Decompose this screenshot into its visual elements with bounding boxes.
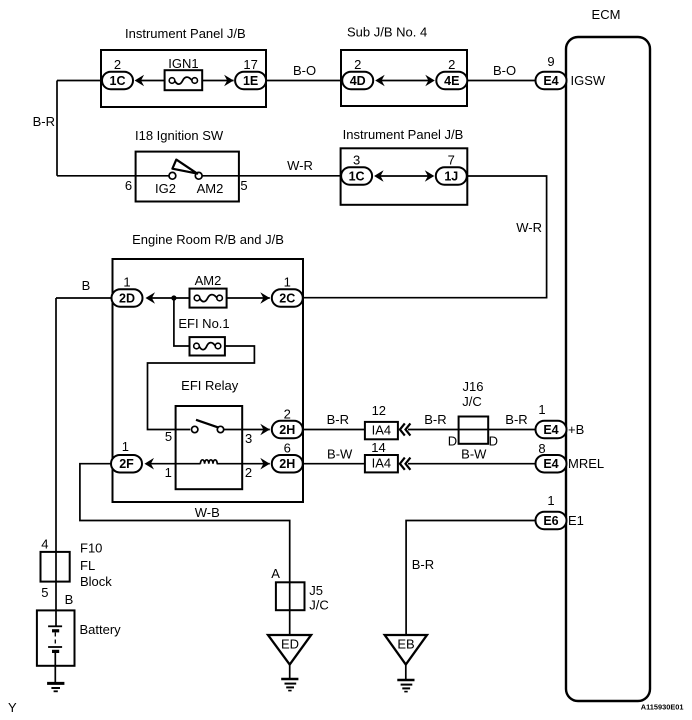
wire B-R vertical — [56, 81, 58, 176]
svg-text:W-B: W-B — [195, 505, 220, 520]
wire 1J right then down then to 2C (W-R) — [303, 176, 546, 298]
svg-text:7: 7 — [448, 153, 455, 168]
arrow into 2H pin 6 — [260, 458, 270, 470]
svg-text:5: 5 — [240, 178, 247, 193]
svg-text:A115930E01: A115930E01 — [641, 703, 684, 712]
svg-text:1C: 1C — [110, 74, 126, 88]
wire coil to arrow — [217, 463, 270, 465]
svg-text:EB: EB — [397, 637, 414, 652]
switch lever — [172, 160, 197, 174]
svg-text:1C: 1C — [349, 170, 365, 184]
EFI Relay box — [176, 378, 243, 489]
svg-text:4D: 4D — [350, 74, 366, 88]
svg-text:B-O: B-O — [293, 63, 316, 78]
Engine Room R/B and J/B box — [113, 232, 304, 502]
svg-text:2F: 2F — [119, 457, 134, 471]
svg-text:1: 1 — [284, 275, 291, 290]
wire 1C to 1J — [380, 175, 430, 177]
wire chevron to E4 (B-W) — [408, 463, 536, 465]
ground ED — [281, 679, 298, 691]
arrow into 4D — [375, 75, 385, 87]
wire arrow to relay coil — [150, 463, 201, 465]
svg-text:B-W: B-W — [327, 447, 353, 462]
svg-text:D: D — [448, 434, 457, 449]
arrow into 1C — [135, 75, 145, 87]
relay coil — [200, 460, 217, 464]
arrow into 1J — [425, 170, 435, 182]
wire junction down to EFI No.1 fuse — [174, 298, 190, 346]
junction dot — [171, 295, 176, 300]
svg-text:1: 1 — [122, 439, 129, 454]
connector 1C pin 2 — [102, 57, 133, 89]
svg-text:3: 3 — [353, 153, 360, 168]
I18 Ignition SW box — [135, 128, 239, 202]
svg-text:J/C: J/C — [462, 394, 482, 409]
svg-text:B-R: B-R — [33, 114, 55, 129]
wire E6 left then down to EB (B-R) — [406, 521, 535, 636]
svg-text:D: D — [489, 434, 498, 449]
fuse AM2 — [190, 273, 227, 308]
svg-text:1J: 1J — [444, 170, 458, 184]
svg-text:1: 1 — [538, 402, 545, 417]
svg-text:2: 2 — [448, 57, 455, 72]
svg-text:1: 1 — [165, 465, 172, 480]
connector 2H pin 2 — [272, 407, 303, 439]
svg-text:17: 17 — [243, 57, 257, 72]
wire 4E to E4 (B-O) — [467, 80, 535, 82]
double chevron arrows — [400, 423, 411, 435]
fusible link F10 FL Block — [41, 541, 113, 590]
svg-text:Instrument Panel J/B: Instrument Panel J/B — [125, 26, 246, 41]
wire arrow to AM2 fuse — [151, 297, 190, 299]
relay switch contacts — [192, 420, 224, 433]
arrow into 1E — [224, 75, 234, 87]
svg-text:2D: 2D — [119, 292, 135, 306]
svg-text:6: 6 — [125, 178, 132, 193]
svg-text:4: 4 — [41, 537, 48, 552]
svg-text:E4: E4 — [543, 74, 558, 88]
wire F10 through to battery — [55, 552, 57, 626]
wire arrow to IGN1 fuse — [140, 80, 165, 82]
switch AM2 contact — [195, 172, 223, 196]
svg-text:MREL: MREL — [568, 456, 604, 471]
arrow into 4E — [425, 75, 435, 87]
Instrument Panel J/B box (top) — [101, 26, 266, 107]
switch IG2 contact — [155, 172, 176, 196]
svg-text:IA4: IA4 — [372, 423, 392, 438]
svg-text:ED: ED — [281, 637, 299, 652]
battery — [37, 610, 121, 665]
connector 2H pin 6 — [272, 441, 303, 473]
double chevron arrows — [400, 458, 411, 470]
svg-text:EFI No.1: EFI No.1 — [178, 316, 229, 331]
wire 2H to IA4 (B-W) — [303, 463, 365, 465]
svg-text:5: 5 — [165, 429, 172, 444]
connector 1C pin 3 — [341, 153, 372, 185]
wire ED stem — [289, 665, 291, 680]
wire 1E to Sub J/B (B-O) — [266, 80, 342, 82]
svg-text:1E: 1E — [243, 74, 258, 88]
connector E4 pin 9 IGSW — [536, 54, 606, 89]
svg-text:B-O: B-O — [493, 63, 516, 78]
ground EB — [397, 680, 414, 692]
wire EB stem — [405, 665, 407, 681]
svg-text:2: 2 — [245, 465, 252, 480]
svg-text:J/C: J/C — [309, 598, 329, 613]
fuse EFI No.1 — [178, 316, 229, 356]
svg-text:ECM: ECM — [592, 7, 621, 22]
svg-text:FL: FL — [80, 558, 95, 573]
connector 1J pin 7 — [436, 153, 467, 185]
svg-text:8: 8 — [538, 441, 545, 456]
wire chevron to J16 (B-R) — [408, 429, 536, 431]
svg-text:2H: 2H — [279, 423, 295, 437]
wire EFI No.1 to relay pin 5 (jog) — [148, 346, 255, 430]
arrow into 1C — [374, 170, 384, 182]
svg-text:AM2: AM2 — [197, 181, 224, 196]
svg-text:E6: E6 — [543, 514, 558, 528]
svg-text:Instrument Panel J/B: Instrument Panel J/B — [343, 127, 464, 142]
wire to IG2 pin 6 — [57, 175, 169, 177]
svg-text:2: 2 — [354, 57, 361, 72]
connector 1E pin 17 — [235, 57, 266, 89]
svg-text:B-R: B-R — [424, 412, 446, 427]
ground triangle ED — [268, 635, 311, 665]
fuse IGN1 — [165, 56, 203, 90]
svg-text:B: B — [65, 592, 74, 607]
svg-text:B-R: B-R — [327, 412, 349, 427]
connector 2C pin 1 — [272, 275, 303, 307]
svg-text:W-R: W-R — [287, 158, 313, 173]
Instrument Panel J/B box (second) — [341, 127, 468, 205]
wire 2F out left, down, W-B run to J5 — [80, 464, 290, 635]
svg-text:IGN1: IGN1 — [168, 56, 198, 71]
connector 2F pin 1 — [111, 439, 142, 472]
svg-text:6: 6 — [284, 441, 291, 456]
connector E4 pin 1 +B — [536, 402, 585, 438]
svg-text:2H: 2H — [279, 457, 295, 471]
junction connector J5 J/C — [276, 582, 329, 612]
svg-text:4E: 4E — [444, 74, 459, 88]
svg-text:EFI Relay: EFI Relay — [181, 378, 239, 393]
svg-text:E1: E1 — [568, 513, 584, 528]
ECM box — [566, 7, 650, 701]
wire 1C to corner (B-R horizontal) — [57, 80, 103, 82]
svg-text:Sub J/B No. 4: Sub J/B No. 4 — [347, 25, 427, 40]
svg-text:14: 14 — [371, 440, 385, 455]
svg-text:1: 1 — [123, 275, 130, 290]
wire B vertical down to F10 — [55, 298, 57, 552]
svg-text:1: 1 — [547, 493, 554, 508]
ground battery — [47, 683, 64, 691]
svg-text:Y: Y — [8, 700, 17, 715]
svg-text:12: 12 — [372, 403, 386, 418]
svg-text:IA4: IA4 — [372, 456, 392, 471]
svg-text:AM2: AM2 — [195, 273, 222, 288]
svg-text:W-R: W-R — [516, 220, 542, 235]
svg-text:B-W: B-W — [461, 447, 487, 462]
svg-text:2: 2 — [284, 407, 291, 422]
arrow into 2C — [260, 292, 270, 304]
svg-text:IGSW: IGSW — [571, 73, 606, 88]
wire 4D to 4E — [381, 80, 431, 82]
svg-text:E4: E4 — [543, 423, 558, 437]
arrow into 2H — [260, 424, 270, 436]
svg-text:Engine Room R/B and J/B: Engine Room R/B and J/B — [132, 232, 284, 247]
svg-text:F10: F10 — [80, 541, 102, 556]
connector 4D pin 2 — [342, 57, 373, 89]
arrow into 2D — [146, 292, 156, 304]
connector 2D pin 1 — [112, 275, 143, 307]
wire relay switch to arrow — [224, 429, 270, 431]
svg-text:IG2: IG2 — [155, 181, 176, 196]
connector 4E pin 2 — [436, 57, 467, 89]
svg-text:B-R: B-R — [505, 412, 527, 427]
wire 2D to corner (B) — [56, 297, 112, 299]
svg-text:2: 2 — [114, 57, 121, 72]
svg-text:+B: +B — [568, 422, 584, 437]
junction block IA4 pin 12 — [365, 403, 398, 439]
svg-text:2C: 2C — [279, 292, 295, 306]
svg-text:9: 9 — [547, 54, 554, 69]
wire fuse to arrow — [202, 80, 233, 82]
svg-text:Battery: Battery — [80, 622, 122, 637]
svg-text:E4: E4 — [543, 457, 558, 471]
wire AM2 fuse to arrow — [227, 297, 270, 299]
connector E4 pin 8 MREL — [536, 441, 605, 472]
wire 2H to IA4 (B-R) — [303, 429, 365, 431]
svg-text:J16: J16 — [463, 379, 484, 394]
arrow into 2F — [145, 458, 155, 470]
svg-text:B: B — [82, 278, 91, 293]
svg-text:I18 Ignition SW: I18 Ignition SW — [135, 128, 224, 143]
junction block IA4 pin 14 — [365, 440, 398, 472]
junction connector J16 J/C — [448, 379, 498, 449]
svg-text:B-R: B-R — [412, 557, 434, 572]
svg-text:J5: J5 — [309, 583, 323, 598]
ground triangle EB — [385, 635, 427, 665]
connector E6 pin 1 E1 — [536, 493, 584, 529]
wire battery to ground — [54, 651, 56, 683]
Sub J/B No. 4 box — [341, 25, 467, 107]
svg-text:5: 5 — [41, 585, 48, 600]
svg-text:Block: Block — [80, 574, 112, 589]
wire AM2 to Instrument Panel J/B 2 (W-R) — [202, 175, 341, 177]
svg-text:A: A — [271, 566, 280, 581]
svg-text:3: 3 — [245, 431, 252, 446]
